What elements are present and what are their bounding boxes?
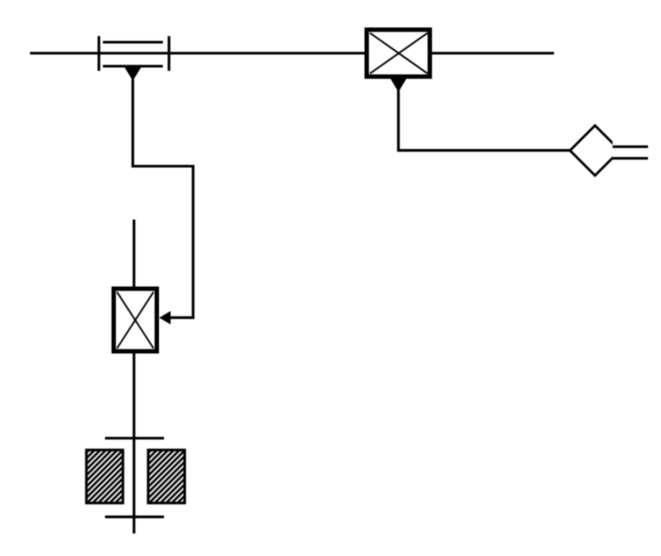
earth electrode E1 right hatched block <box>148 450 185 503</box>
arrowhead into U2 (points left) <box>159 311 170 324</box>
wire from U1 tap down and right to converter <box>398 90 570 150</box>
circuit breaker U2 (crossed box, lower-left) <box>114 289 157 352</box>
wire stub above breaker U2 <box>133 220 136 289</box>
earth electrode E1 lower tick <box>105 516 164 519</box>
coupling device F1 (inline symbol on busbar, top-left) <box>99 36 169 71</box>
arrowhead at F1 tap <box>125 68 141 81</box>
wire from U2 down to earth electrode <box>133 353 136 534</box>
circuit breaker U1 (crossed box on busbar, top-right) <box>367 30 430 77</box>
wire vertical drop to breaker U2 branch <box>170 165 193 318</box>
converter U3 (diamond symbol) <box>570 126 627 176</box>
arrowhead at U1 tap <box>390 78 407 92</box>
converter U3 double-line output <box>613 147 648 159</box>
busbar (top feeder line) <box>30 52 554 55</box>
earth electrode E1 upper tick <box>105 437 164 440</box>
wire from F1 tap down and right to node corner <box>133 79 193 166</box>
earth electrode E1 left hatched block <box>86 450 123 503</box>
